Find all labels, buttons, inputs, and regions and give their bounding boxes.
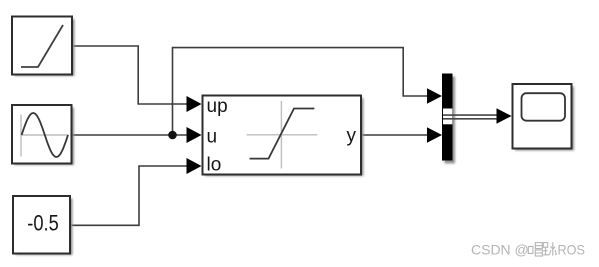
watermark ROS text xyxy=(558,242,586,258)
wire from saturation y output to mux input 2 xyxy=(362,134,430,136)
port label lo xyxy=(207,155,222,176)
vector signal double line from mux to scope xyxy=(443,115,497,119)
wire from sine to u port xyxy=(72,134,190,136)
saturation dynamic block xyxy=(203,96,364,177)
watermark CSDN @ text xyxy=(471,242,529,258)
wire from constant to lo port xyxy=(71,166,190,225)
junction node dot xyxy=(168,131,177,140)
svg-text:up: up xyxy=(207,96,228,117)
svg-text:ROS: ROS xyxy=(558,242,586,258)
svg-text:lo: lo xyxy=(207,155,222,176)
svg-text:CSDN @: CSDN @ xyxy=(471,242,529,258)
watermark glyph chang xyxy=(528,243,542,256)
port label y xyxy=(347,126,357,147)
constant block -0.5 xyxy=(13,196,73,255)
sine wave source block xyxy=(12,105,74,165)
svg-text:y: y xyxy=(347,126,357,147)
input port arrow u xyxy=(187,127,202,143)
scope input arrow xyxy=(497,108,512,124)
svg-text:u: u xyxy=(207,126,218,147)
port label u xyxy=(207,126,218,147)
input port arrow lo xyxy=(187,158,202,174)
svg-text:-0.5: -0.5 xyxy=(27,211,59,236)
mux block bar xyxy=(442,74,455,164)
wire branch from junction to mux input 1 xyxy=(173,48,431,135)
mux input arrow 2 xyxy=(427,127,442,143)
input port arrow up xyxy=(187,96,202,112)
scope block xyxy=(513,84,575,151)
port label up xyxy=(207,96,228,117)
wire from ramp to up port xyxy=(72,46,190,104)
watermark glyph tiao xyxy=(543,242,556,255)
mux input arrow 1 xyxy=(427,88,442,104)
ramp source block xyxy=(12,17,75,77)
